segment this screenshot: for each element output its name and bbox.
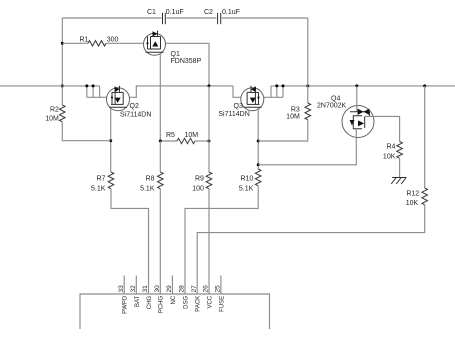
svg-text:26: 26 — [203, 285, 210, 293]
svg-text:R4: R4 — [386, 144, 395, 151]
svg-text:R9: R9 — [195, 176, 204, 183]
svg-text:10K: 10K — [406, 200, 419, 207]
node: junction Q1 drain / mid rail — [208, 84, 211, 87]
svg-text:33: 33 — [118, 285, 125, 293]
svg-text:5.1K: 5.1K — [91, 185, 106, 192]
svg-text:C2: C2 — [204, 9, 213, 16]
IC box U1 (partial, bottom of image) — [80, 294, 270, 329]
wire: left vertical from top rail down to R2 — [61, 18, 63, 105]
wire: Q1 source down column x=160 — [159, 54, 161, 142]
svg-text:28: 28 — [179, 285, 186, 293]
wire: Q3 source down column x=258 — [257, 108, 259, 169]
node: staple junction 1 — [85, 84, 88, 87]
svg-text:C1: C1 — [147, 9, 156, 16]
node: junction Q4 drain / right rail — [355, 84, 358, 87]
svg-text:Si7114DN: Si7114DN — [218, 111, 249, 118]
svg-text:5.1K: 5.1K — [239, 185, 254, 192]
wire: Q4 source to R10 top — [258, 137, 356, 164]
wire: top rail left segment — [62, 17, 161, 19]
resistor R1 300 (horizontal) — [62, 37, 143, 47]
capacitor C1 — [147, 9, 184, 24]
svg-text:PWPD: PWPD — [123, 295, 129, 314]
node: junction R5 left — [159, 140, 162, 143]
svg-text:DSG: DSG — [184, 295, 190, 308]
pin 31 CHG — [142, 285, 153, 309]
node: staple junction 2 — [92, 84, 95, 87]
resistor R4 10K (vertical) — [383, 142, 402, 178]
svg-text:FUSE: FUSE — [219, 296, 225, 312]
transistor Q1 FDN358P (P-ch MOSFET) — [144, 31, 202, 65]
pin 29 NC — [166, 276, 177, 305]
svg-text:R3: R3 — [291, 107, 300, 114]
wire: Q2 gate staple — [87, 86, 107, 97]
wire: column x=209 from rail to R9 — [208, 86, 210, 172]
transistor Q3 Si7114DN (N-ch MOSFET, mirrored) — [218, 86, 263, 118]
pin 28 DSG — [179, 285, 190, 309]
wire: top rail right segment — [222, 17, 308, 19]
svg-text:30: 30 — [154, 285, 161, 293]
resistor R7 5.1K (vertical) — [91, 172, 149, 294]
resistor R2 10M (vertical) — [45, 105, 110, 141]
resistor R8 5.1K (vertical) — [140, 172, 163, 294]
svg-text:FDN358P: FDN358P — [171, 58, 202, 65]
pin 32 BAT — [130, 276, 141, 308]
svg-text:BAT: BAT — [135, 295, 141, 307]
node: junction Q4 source line / R10 top — [257, 163, 260, 166]
wire: top rail middle segment between C1 and C2 — [166, 17, 216, 19]
svg-text:29: 29 — [166, 285, 173, 293]
wire: Q2 source down column — [110, 108, 112, 172]
node: junction R12 / right rail — [423, 84, 426, 87]
svg-text:5.1K: 5.1K — [140, 185, 155, 192]
resistor R9 100 (vertical) — [192, 172, 212, 294]
svg-text:Q2: Q2 — [130, 103, 139, 110]
resistor R3 10M (vertical) — [258, 18, 310, 141]
svg-text:VCC: VCC — [207, 295, 213, 308]
ground — [391, 178, 406, 185]
svg-text:Q3: Q3 — [234, 103, 243, 110]
svg-text:10M: 10M — [45, 115, 59, 122]
svg-text:CHG: CHG — [147, 295, 153, 309]
svg-text:R2: R2 — [50, 106, 59, 113]
transistor Q4 2N7002K (N-ch MOSFET) — [317, 86, 374, 138]
wire: right rail y=86 — [271, 85, 455, 87]
svg-text:PACK: PACK — [196, 296, 202, 312]
node: junction R1/left vertical — [61, 42, 64, 45]
resistor R12 10K (vertical) — [197, 86, 427, 294]
svg-text:R10: R10 — [240, 176, 253, 183]
node: staple junction 4 — [282, 84, 285, 87]
svg-text:Q4: Q4 — [331, 95, 340, 102]
capacitor C2 — [204, 9, 240, 24]
pin 27 PACK — [191, 285, 202, 312]
pin 30 PCHG — [154, 285, 165, 313]
svg-text:100: 100 — [192, 185, 204, 192]
node: staple junction 3 — [275, 84, 278, 87]
svg-text:R7: R7 — [96, 176, 105, 183]
svg-text:R8: R8 — [146, 176, 155, 183]
svg-text:10M: 10M — [185, 132, 199, 139]
svg-text:31: 31 — [142, 285, 149, 293]
pin 26 VCC — [203, 285, 214, 309]
pin 25 FUSE — [215, 276, 226, 312]
wire: left rail y=86 — [0, 85, 100, 87]
svg-text:PCHG: PCHG — [159, 295, 165, 313]
transistor Q2 Si7114DN (N-ch MOSFET) — [107, 86, 152, 119]
node: junction R3 column / right rail — [306, 84, 309, 87]
resistor R10 5.1K (vertical) — [185, 169, 261, 294]
wire: Q4 gate to R4 — [374, 116, 400, 141]
svg-text:0.1uF: 0.1uF — [222, 9, 240, 16]
wire: Q3 drain step up to mid rail — [233, 86, 241, 97]
wire: Q1 drain to mid rail — [166, 43, 210, 86]
wire: Q3 gate staple — [264, 86, 284, 97]
node: junction left rail/left vertical — [61, 84, 64, 87]
wire: Q2 drain step up to mid rail — [130, 86, 233, 97]
svg-text:32: 32 — [130, 285, 137, 293]
node: junction R3 bottom / Q3 source column — [257, 140, 260, 143]
svg-text:Q1: Q1 — [171, 51, 180, 58]
svg-text:300: 300 — [107, 37, 119, 44]
svg-text:R1: R1 — [80, 37, 89, 44]
svg-text:Si7114DN: Si7114DN — [120, 112, 151, 119]
svg-text:10K: 10K — [383, 154, 396, 161]
svg-text:NC: NC — [171, 295, 177, 304]
svg-text:R5: R5 — [166, 132, 175, 139]
resistor R5 10M (horizontal) — [160, 132, 209, 144]
svg-text:0.1uF: 0.1uF — [166, 9, 184, 16]
wire: column x=160 from R5 to R8 — [159, 141, 161, 172]
pin 33 PWPD — [118, 276, 129, 314]
svg-text:27: 27 — [191, 285, 198, 293]
svg-text:2N7002K: 2N7002K — [317, 103, 347, 110]
svg-text:10M: 10M — [286, 114, 300, 121]
svg-text:R12: R12 — [406, 191, 419, 198]
node: junction R5 right — [208, 140, 211, 143]
svg-text:25: 25 — [215, 285, 222, 293]
node: junction R2 line / Q2 source — [109, 139, 112, 142]
